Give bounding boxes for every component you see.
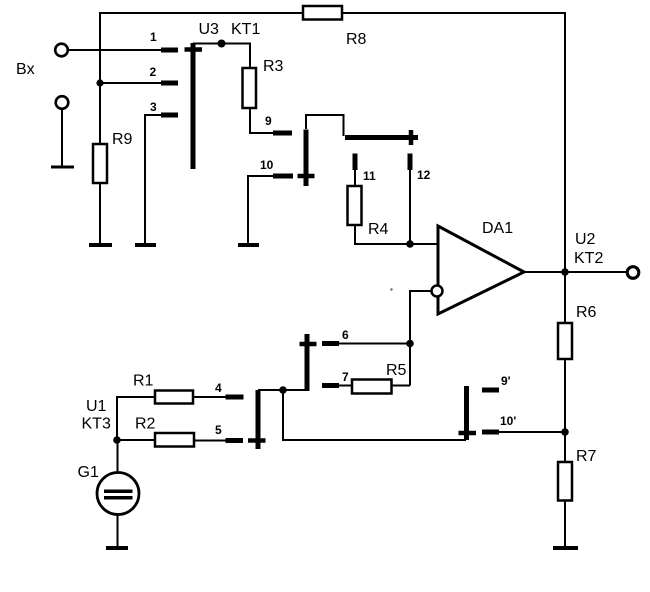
svg-text:KT1: KT1 bbox=[231, 21, 260, 38]
svg-text:4: 4 bbox=[215, 381, 222, 395]
svg-text:9: 9 bbox=[265, 114, 272, 128]
svg-text:R8: R8 bbox=[346, 31, 367, 48]
svg-text:R1: R1 bbox=[133, 373, 154, 390]
svg-text:10: 10 bbox=[260, 158, 274, 172]
svg-text:R4: R4 bbox=[368, 221, 389, 238]
svg-text:R9: R9 bbox=[112, 131, 133, 148]
svg-text:7: 7 bbox=[342, 370, 349, 384]
svg-text:12: 12 bbox=[417, 168, 431, 182]
svg-text:9': 9' bbox=[501, 374, 511, 388]
svg-text:R2: R2 bbox=[135, 416, 156, 433]
svg-text:U2: U2 bbox=[575, 231, 596, 248]
svg-text:U3: U3 bbox=[199, 21, 220, 38]
svg-text:R7: R7 bbox=[576, 448, 597, 465]
svg-text:R5: R5 bbox=[386, 362, 407, 379]
svg-text:1: 1 bbox=[150, 30, 157, 44]
svg-text:3: 3 bbox=[150, 100, 157, 114]
svg-text:R6: R6 bbox=[576, 304, 597, 321]
svg-text:R3: R3 bbox=[263, 58, 284, 75]
svg-text:G1: G1 bbox=[78, 464, 99, 481]
svg-text:5: 5 bbox=[215, 423, 222, 437]
svg-text:DA1: DA1 bbox=[482, 220, 513, 237]
svg-text:KT3: KT3 bbox=[82, 416, 111, 433]
svg-text:6: 6 bbox=[342, 328, 349, 342]
svg-text:Bx: Bx bbox=[16, 61, 35, 78]
svg-text:2: 2 bbox=[150, 65, 157, 79]
svg-text:KT2: KT2 bbox=[574, 250, 603, 267]
svg-text:U1: U1 bbox=[86, 398, 107, 415]
svg-text:10': 10' bbox=[500, 414, 516, 428]
svg-text:11: 11 bbox=[363, 169, 376, 183]
